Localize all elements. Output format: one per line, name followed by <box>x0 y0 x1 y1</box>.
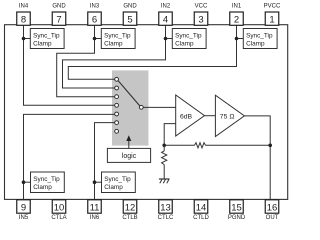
svg-text:PVCC: PVCC <box>264 4 281 10</box>
svg-text:Sync_Tip: Sync_Tip <box>175 33 202 40</box>
svg-text:8: 8 <box>21 14 26 25</box>
svg-text:16: 16 <box>267 202 278 213</box>
svg-text:OUT: OUT <box>266 215 279 221</box>
svg-text:11: 11 <box>90 202 100 213</box>
svg-text:Clamp: Clamp <box>104 41 123 48</box>
svg-text:IN1: IN1 <box>232 4 242 10</box>
pin 9 <box>17 200 31 213</box>
svg-text:15: 15 <box>231 202 242 213</box>
wire IN4 (pin 8 to switch position 4) <box>24 25 115 105</box>
pin 7 <box>52 12 66 25</box>
sync tip clamp (IN3) <box>101 29 135 49</box>
wire feedback to amp lower input <box>164 124 176 146</box>
svg-text:logic: logic <box>122 153 137 160</box>
svg-text:IN6: IN6 <box>90 215 100 221</box>
svg-text:Clamp: Clamp <box>33 41 52 48</box>
svg-text:6dB: 6dB <box>180 113 193 120</box>
switch contact 2 <box>115 86 119 90</box>
svg-text:12: 12 <box>125 202 136 213</box>
svg-text:IN5: IN5 <box>19 215 29 221</box>
switch block (gray) <box>112 70 148 145</box>
sync tip clamp (IN2) <box>172 29 206 49</box>
svg-text:9: 9 <box>21 202 26 213</box>
logic control arrow <box>128 140 130 149</box>
svg-text:14: 14 <box>196 202 207 213</box>
wire IN1 clamp branch <box>237 38 244 40</box>
pin 13 <box>159 200 173 213</box>
node IN3 clamp junction <box>93 37 97 41</box>
wire IN2 (pin 4 to switch position 2) <box>63 25 166 88</box>
svg-text:10: 10 <box>54 202 65 213</box>
node IN4 clamp junction <box>22 37 26 41</box>
svg-text:Clamp: Clamp <box>104 184 123 191</box>
svg-text:75 Ω: 75 Ω <box>220 114 235 121</box>
switch contact 5 <box>115 112 119 116</box>
node output junction <box>268 144 272 148</box>
switch arm <box>118 81 140 106</box>
wire IN5 (pin 9 to switch position 5) <box>24 114 115 199</box>
svg-text:IN2: IN2 <box>161 4 171 10</box>
wire IN3 (pin 6 to switch position 3) <box>57 25 115 96</box>
wire IN4 clamp branch <box>24 38 31 40</box>
svg-text:5: 5 <box>127 14 132 25</box>
svg-text:Sync_Tip: Sync_Tip <box>33 176 60 183</box>
wire IN2 clamp branch <box>166 38 173 40</box>
svg-text:VCC: VCC <box>195 4 208 10</box>
pin 1 <box>265 12 279 25</box>
svg-text:2: 2 <box>234 14 239 25</box>
sync tip clamp (IN6) <box>102 172 136 193</box>
pin 5 <box>123 12 137 25</box>
svg-text:CTLA: CTLA <box>51 215 66 221</box>
svg-text:Sync_Tip: Sync_Tip <box>104 176 131 183</box>
pin 2 <box>230 12 244 25</box>
pin 11 <box>88 200 102 213</box>
svg-text:Clamp: Clamp <box>175 41 194 48</box>
wire IN5 clamp branch <box>24 181 31 183</box>
svg-text:3: 3 <box>198 14 203 25</box>
wire IN3 clamp branch <box>95 38 102 40</box>
sync tip clamp (IN4) <box>30 29 64 49</box>
svg-text:Clamp: Clamp <box>246 41 265 48</box>
svg-text:Sync_Tip: Sync_Tip <box>246 33 273 40</box>
pin 8 <box>17 12 31 25</box>
resistor R2 to ground <box>163 145 165 151</box>
node IN6 clamp junction <box>93 180 97 184</box>
feedback resistor R1 <box>164 144 194 146</box>
switch contact 1 <box>115 77 119 81</box>
svg-text:IN4: IN4 <box>19 4 29 10</box>
ground <box>159 178 170 180</box>
pin 4 <box>159 12 173 25</box>
pin 3 <box>194 12 208 25</box>
sync tip clamp (IN1) <box>243 29 277 49</box>
wire switch common to amp <box>143 106 176 108</box>
svg-text:CTLC: CTLC <box>158 215 174 221</box>
svg-text:PGND: PGND <box>228 215 246 221</box>
pin 10 <box>52 200 66 213</box>
node IN2 clamp junction <box>164 37 168 41</box>
pin 6 <box>88 12 102 25</box>
svg-text:7: 7 <box>56 14 61 25</box>
switch common contact <box>139 105 143 109</box>
wire output to pin 16 <box>244 116 270 200</box>
logic block <box>107 148 150 162</box>
svg-text:6: 6 <box>92 14 97 25</box>
svg-text:13: 13 <box>160 202 171 213</box>
svg-text:GND: GND <box>52 4 66 10</box>
svg-text:GND: GND <box>123 4 137 10</box>
pin 16 <box>265 200 279 213</box>
node IN1 clamp junction <box>235 37 239 41</box>
wire IN6 (pin 11 to switch position 6) <box>95 123 115 200</box>
svg-text:Clamp: Clamp <box>33 184 52 191</box>
svg-text:Sync_Tip: Sync_Tip <box>104 33 131 40</box>
svg-text:IN3: IN3 <box>90 4 100 10</box>
node IN5 clamp junction <box>22 180 26 184</box>
switch contact 7 <box>115 129 119 133</box>
pin 12 <box>123 200 137 213</box>
wire IN6 clamp branch <box>95 181 102 183</box>
amplifier 75 ohm driver <box>215 95 244 136</box>
switch contact 6 <box>115 121 119 125</box>
pin 15 <box>230 200 244 213</box>
wire IN1 (pin 2 to switch position 1) <box>68 25 236 79</box>
svg-text:4: 4 <box>163 14 168 25</box>
switch contact 3 <box>115 95 119 99</box>
amplifier 6dB <box>176 95 205 136</box>
IC body outline <box>5 25 288 200</box>
svg-text:CTLD: CTLD <box>193 215 209 221</box>
sync tip clamp (IN5) <box>31 172 65 193</box>
switch contact 4 <box>115 103 119 107</box>
node feedback left <box>162 144 166 148</box>
svg-text:1: 1 <box>269 14 274 25</box>
pin 14 <box>194 200 208 213</box>
wire amp1 to amp2 <box>205 115 216 117</box>
svg-text:CTLB: CTLB <box>122 215 137 221</box>
svg-text:Sync_Tip: Sync_Tip <box>33 33 60 40</box>
